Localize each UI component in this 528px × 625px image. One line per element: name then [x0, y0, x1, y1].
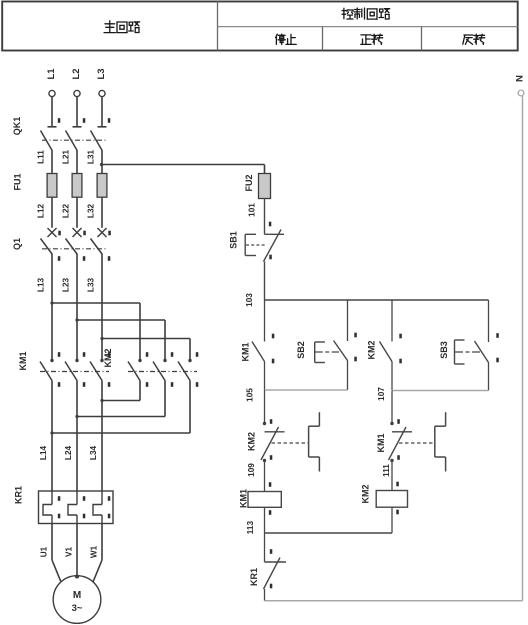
fuse FU1 pole 2	[72, 174, 82, 228]
contactor KM2 main label	[103, 348, 113, 367]
wire KM2 coil to bus 113	[391, 507, 393, 533]
wire phase column 2 to KR1	[76, 381, 78, 492]
svg-text:103: 103	[245, 293, 254, 307]
svg-text:SB3: SB3	[439, 341, 449, 359]
switch QK1 linkage	[42, 139, 107, 141]
node L24	[64, 445, 73, 460]
node L31	[87, 149, 96, 164]
svg-text:L21: L21	[62, 149, 71, 164]
svg-text:L33: L33	[87, 277, 96, 292]
svg-text:L12: L12	[37, 203, 46, 218]
svg-text:107: 107	[377, 387, 386, 401]
thermal relay KR1 label	[14, 486, 24, 504]
wire KM2 output 3	[50, 381, 190, 435]
svg-text:L2: L2	[71, 68, 82, 79]
svg-text:SB2: SB2	[296, 341, 306, 359]
wire node 103	[245, 262, 265, 307]
contactor KM2 aux contact (seal-in)	[367, 300, 402, 390]
node W1	[90, 545, 99, 558]
node L11	[37, 150, 46, 164]
wire KM2 feed 2	[75, 318, 165, 360]
wire KM2 output 1	[100, 381, 140, 403]
pushbutton SB3 (reverse start)	[439, 300, 499, 391]
svg-text:QK1: QK1	[12, 117, 22, 136]
contactor KM2 main pole 2	[153, 352, 173, 387]
svg-text:L11: L11	[37, 150, 46, 164]
wire 107 to KM1 interlock	[391, 391, 393, 424]
wire node 113	[246, 507, 265, 534]
svg-text:FU2: FU2	[244, 174, 254, 191]
terminal L3	[96, 68, 107, 96]
node L12	[37, 203, 46, 218]
title text forward 正转	[361, 34, 383, 44]
wire phase column 3 to KR1	[101, 381, 103, 492]
svg-text:V1: V1	[65, 547, 74, 557]
wire 109 to KM1 coil	[264, 461, 266, 492]
wire KM2 output 2	[75, 381, 165, 419]
switch QK1 pole 3	[91, 118, 111, 173]
svg-text:KM1: KM1	[18, 351, 28, 370]
contactor KM1 NC interlock contact	[376, 412, 446, 477]
contactor KM2 linkage	[128, 371, 197, 373]
thermal relay KR1 NC contact	[249, 549, 286, 601]
svg-text:KM2: KM2	[247, 432, 257, 451]
svg-text:M: M	[73, 590, 81, 601]
svg-text:109: 109	[247, 463, 256, 477]
wire U1 to motor	[52, 524, 61, 583]
svg-text:FU1: FU1	[13, 173, 23, 190]
svg-text:KM2: KM2	[103, 348, 113, 367]
svg-text:W1: W1	[90, 545, 99, 558]
node L22	[62, 203, 71, 218]
contactor KM2 NC interlock contact	[247, 412, 320, 477]
thermal relay KR1 heater 3	[93, 491, 110, 524]
wire bus 103	[265, 299, 489, 301]
node U1	[40, 546, 49, 557]
contactor KM1 main pole 2	[65, 352, 85, 387]
breaker Q1 pole 1	[41, 228, 61, 361]
svg-text:101: 101	[248, 203, 257, 217]
contactor KM1 main pole 3	[90, 352, 110, 387]
title text stop 停止	[276, 34, 297, 44]
wire node 105	[246, 388, 348, 402]
switch QK1 label	[12, 117, 22, 136]
svg-text:KM1: KM1	[239, 489, 249, 508]
title text control circuit 控制回路	[342, 8, 390, 19]
wire 105 to KM2 interlock	[264, 390, 266, 424]
wire W1 to motor	[93, 524, 102, 583]
svg-text:N: N	[515, 75, 526, 82]
fuse FU1 pole 1	[47, 174, 57, 228]
svg-text:L13: L13	[37, 277, 46, 292]
contactor KM1 linkage	[40, 371, 109, 373]
node L14	[39, 445, 48, 460]
fuse FU1 pole 3	[97, 174, 107, 228]
node L33	[87, 277, 96, 292]
wire L3 drop	[98, 97, 107, 127]
svg-text:L23: L23	[62, 277, 71, 292]
wire phase column 1 to KR1	[51, 381, 53, 492]
node L21	[62, 149, 71, 164]
wire node 101	[248, 199, 265, 235]
terminal L2	[71, 68, 82, 96]
svg-text:113: 113	[246, 521, 255, 535]
svg-text:L34: L34	[89, 445, 98, 460]
pushbutton SB1 (stop, NC)	[229, 222, 285, 262]
svg-text:Q1: Q1	[12, 238, 22, 250]
svg-text:L3: L3	[96, 68, 107, 79]
node L13	[37, 277, 46, 292]
coil KM1	[239, 482, 282, 515]
wire control feed down	[264, 165, 266, 174]
title text reverse 反转	[463, 34, 485, 44]
wire L1 drop	[48, 97, 57, 127]
svg-text:3~: 3~	[72, 603, 83, 614]
svg-text:L32: L32	[87, 203, 96, 218]
title table frame	[2, 2, 518, 51]
node L34	[89, 445, 98, 460]
svg-text:KR1: KR1	[14, 486, 24, 504]
wire tap to control circuit	[100, 163, 265, 166]
pushbutton SB2 (forward start)	[296, 300, 357, 390]
wire KM2 feed 1	[50, 301, 140, 360]
breaker Q1 pole 3	[91, 228, 111, 361]
svg-text:KR1: KR1	[249, 568, 259, 586]
svg-text:KM1: KM1	[376, 433, 386, 452]
svg-text:L14: L14	[39, 445, 48, 460]
breaker Q1 pole 2	[66, 228, 86, 361]
contactor KM1 main pole 1	[40, 352, 60, 387]
switch QK1 pole 1	[41, 118, 61, 173]
wire node 107	[377, 387, 489, 401]
node L23	[62, 277, 71, 292]
breaker Q1 label	[12, 238, 22, 250]
wire bottom bus to N	[265, 600, 523, 602]
wire V1 to motor	[76, 524, 78, 576]
contactor KM2 main pole 1	[128, 352, 148, 387]
wire KM2 feed 3	[100, 337, 190, 361]
svg-text:KM2: KM2	[367, 340, 377, 359]
svg-text:SB1: SB1	[229, 231, 239, 249]
switch QK1 pole 2	[66, 118, 86, 173]
wire 111 to KM2 coil	[391, 461, 393, 491]
wire 113 down to KR1 contact	[264, 533, 266, 562]
thermal relay KR1 heater 2	[68, 491, 85, 524]
node V1	[65, 547, 74, 557]
breaker Q1 linkage	[42, 248, 107, 250]
svg-text:L24: L24	[64, 445, 73, 460]
svg-text:105: 105	[246, 388, 255, 402]
wire bus 113	[265, 532, 393, 534]
contactor KM1 aux contact (seal-in)	[241, 300, 275, 390]
wire L2 drop	[73, 97, 82, 127]
contactor KM2 main pole 3	[178, 352, 198, 387]
node L32	[87, 203, 96, 218]
thermal relay KR1 box	[39, 491, 114, 524]
fuse FU2	[244, 174, 271, 199]
title text main circuit 主回路	[104, 21, 140, 33]
terminal L1	[46, 68, 57, 97]
contactor KM1 main label	[18, 351, 28, 370]
svg-text:111: 111	[382, 464, 391, 477]
svg-text:L31: L31	[87, 149, 96, 164]
svg-text:KM1: KM1	[241, 342, 251, 361]
svg-text:L1: L1	[46, 68, 57, 80]
motor M1	[53, 575, 101, 624]
neutral line N	[515, 75, 526, 601]
coil KM2	[360, 482, 407, 515]
svg-text:KM2: KM2	[360, 484, 370, 503]
svg-text:U1: U1	[40, 546, 49, 557]
svg-text:L22: L22	[62, 203, 71, 218]
thermal relay KR1 heater 1	[43, 491, 60, 524]
fuse FU1 label	[13, 173, 23, 190]
